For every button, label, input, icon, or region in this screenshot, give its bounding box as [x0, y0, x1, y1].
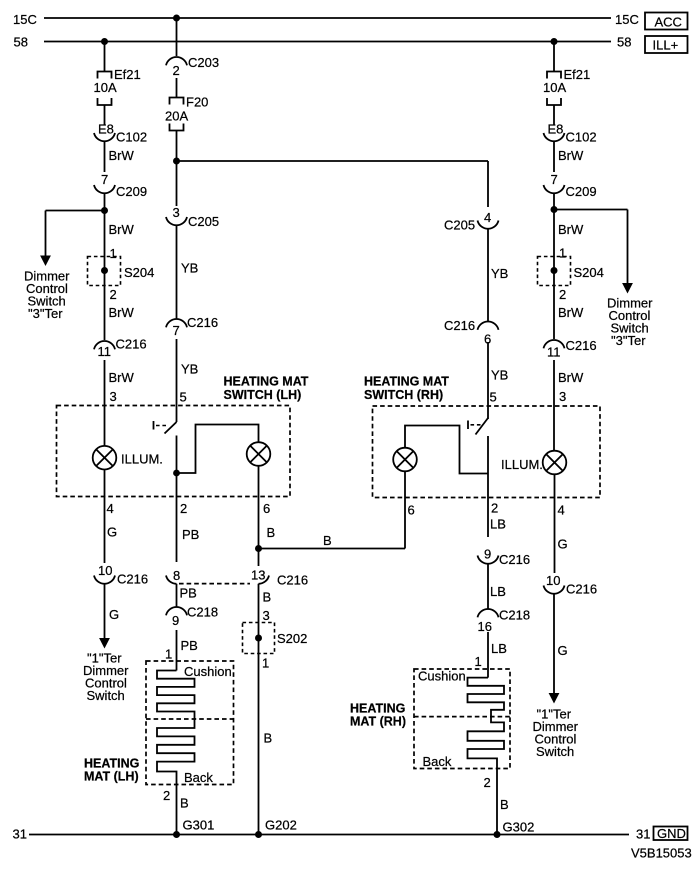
svg-text:7: 7 — [551, 172, 558, 187]
svg-text:20A: 20A — [165, 109, 188, 124]
svg-text:4: 4 — [558, 503, 565, 518]
svg-text:31: 31 — [636, 827, 650, 842]
svg-text:1: 1 — [110, 246, 117, 261]
svg-text:B: B — [267, 525, 276, 540]
svg-text:11: 11 — [547, 345, 561, 360]
svg-text:G202: G202 — [265, 818, 297, 833]
svg-text:C218: C218 — [187, 604, 218, 619]
svg-text:B: B — [500, 797, 509, 812]
svg-text:9: 9 — [172, 613, 179, 628]
svg-text:V5B15053: V5B15053 — [631, 846, 692, 861]
svg-text:Ef21: Ef21 — [114, 67, 141, 82]
svg-text:9: 9 — [484, 547, 491, 562]
svg-text:C216: C216 — [117, 572, 148, 587]
svg-text:2: 2 — [491, 501, 498, 516]
svg-text:BrW: BrW — [558, 370, 584, 385]
svg-text:10: 10 — [98, 563, 112, 578]
svg-text:G: G — [558, 537, 568, 552]
svg-text:Back: Back — [423, 754, 452, 769]
svg-text:58: 58 — [14, 35, 28, 50]
svg-text:C209: C209 — [566, 184, 597, 199]
svg-text:HEATING: HEATING — [350, 702, 405, 716]
svg-text:B: B — [323, 533, 332, 548]
svg-text:3: 3 — [263, 608, 270, 623]
svg-text:5: 5 — [180, 390, 187, 405]
svg-text:3: 3 — [110, 389, 117, 404]
svg-text:7: 7 — [173, 323, 180, 338]
svg-text:Switch: Switch — [87, 688, 125, 703]
svg-text:5: 5 — [490, 390, 497, 405]
svg-text:C209: C209 — [116, 184, 147, 199]
svg-text:10A: 10A — [94, 80, 117, 95]
svg-text:B: B — [264, 731, 273, 746]
svg-text:G: G — [109, 607, 119, 622]
svg-text:13: 13 — [251, 568, 265, 583]
svg-text:PB: PB — [181, 638, 198, 653]
svg-text:7: 7 — [101, 172, 108, 187]
svg-text:Cushion: Cushion — [418, 669, 466, 684]
svg-text:HEATING: HEATING — [84, 757, 139, 771]
svg-text:15C: 15C — [13, 12, 37, 27]
svg-text:S204: S204 — [124, 265, 154, 280]
svg-text:1: 1 — [165, 647, 172, 662]
svg-text:Switch: Switch — [536, 744, 574, 759]
svg-text:G302: G302 — [503, 820, 535, 835]
svg-text:PB: PB — [182, 527, 199, 542]
svg-text:"3"Ter: "3"Ter — [611, 333, 646, 348]
svg-text:6: 6 — [408, 503, 415, 518]
svg-text:C216: C216 — [277, 573, 308, 588]
svg-text:E8: E8 — [548, 122, 564, 137]
svg-text:BrW: BrW — [558, 222, 584, 237]
svg-text:16: 16 — [478, 619, 492, 634]
svg-text:6: 6 — [263, 501, 270, 516]
svg-text:Back: Back — [184, 770, 213, 785]
svg-text:58: 58 — [617, 35, 631, 50]
svg-text:YB: YB — [181, 261, 198, 276]
svg-text:YB: YB — [491, 266, 508, 281]
svg-text:F20: F20 — [186, 95, 208, 110]
svg-text:C216: C216 — [444, 318, 475, 333]
svg-text:YB: YB — [491, 368, 508, 383]
svg-text:S204: S204 — [574, 265, 604, 280]
svg-text:B: B — [180, 796, 189, 811]
svg-text:3: 3 — [173, 205, 180, 220]
svg-text:C203: C203 — [188, 55, 219, 70]
svg-text:BrW: BrW — [558, 305, 584, 320]
svg-text:C102: C102 — [116, 130, 147, 145]
svg-text:BrW: BrW — [109, 222, 135, 237]
svg-text:PB: PB — [180, 586, 197, 601]
svg-text:GND: GND — [657, 826, 686, 841]
svg-text:LB: LB — [491, 641, 507, 656]
svg-text:LB: LB — [490, 517, 506, 532]
svg-text:SWITCH (RH): SWITCH (RH) — [364, 388, 443, 402]
svg-text:SWITCH (LH): SWITCH (LH) — [224, 388, 302, 402]
svg-text:8: 8 — [173, 568, 180, 583]
svg-text:"3"Ter: "3"Ter — [28, 306, 63, 321]
svg-text:MAT (LH): MAT (LH) — [84, 770, 139, 784]
svg-text:BrW: BrW — [109, 148, 135, 163]
svg-text:MAT (RH): MAT (RH) — [350, 715, 406, 729]
svg-text:C205: C205 — [188, 214, 219, 229]
svg-text:G: G — [107, 525, 117, 540]
svg-text:2: 2 — [163, 788, 170, 803]
svg-text:2: 2 — [180, 501, 187, 516]
svg-text:E8: E8 — [98, 122, 114, 137]
svg-text:S202: S202 — [277, 631, 307, 646]
svg-text:4: 4 — [484, 210, 491, 225]
svg-text:2: 2 — [559, 287, 566, 302]
svg-text:C102: C102 — [566, 130, 597, 145]
svg-text:2: 2 — [110, 287, 117, 302]
svg-text:C216: C216 — [499, 552, 530, 567]
svg-text:YB: YB — [181, 362, 198, 377]
svg-text:10: 10 — [546, 573, 560, 588]
svg-text:C218: C218 — [499, 608, 530, 623]
svg-text:LB: LB — [490, 584, 506, 599]
svg-text:31: 31 — [13, 827, 27, 842]
svg-text:11: 11 — [98, 344, 112, 359]
svg-text:1: 1 — [475, 654, 482, 669]
svg-text:Cushion: Cushion — [184, 664, 232, 679]
svg-text:4: 4 — [107, 501, 114, 516]
svg-text:2: 2 — [484, 775, 491, 790]
svg-text:BrW: BrW — [109, 370, 135, 385]
svg-text:10A: 10A — [543, 80, 566, 95]
svg-text:HEATING MAT: HEATING MAT — [364, 375, 449, 389]
svg-text:ACC: ACC — [655, 14, 682, 29]
svg-text:BrW: BrW — [109, 305, 135, 320]
svg-text:BrW: BrW — [558, 148, 584, 163]
svg-text:1: 1 — [559, 246, 566, 261]
svg-text:C216: C216 — [566, 338, 597, 353]
svg-text:G301: G301 — [183, 818, 215, 833]
svg-text:3: 3 — [559, 389, 566, 404]
svg-text:1: 1 — [262, 656, 269, 671]
svg-text:C216: C216 — [566, 582, 597, 597]
svg-text:ILLUM.: ILLUM. — [121, 452, 163, 467]
svg-text:ILLUM.: ILLUM. — [501, 457, 543, 472]
svg-text:C216: C216 — [187, 315, 218, 330]
svg-text:HEATING MAT: HEATING MAT — [224, 375, 309, 389]
svg-text:G: G — [558, 643, 568, 658]
svg-text:15C: 15C — [615, 12, 639, 27]
svg-text:2: 2 — [173, 63, 180, 78]
svg-text:B: B — [263, 590, 272, 605]
svg-text:C216: C216 — [116, 337, 147, 352]
svg-text:C205: C205 — [444, 218, 475, 233]
svg-text:Ef21: Ef21 — [564, 67, 591, 82]
svg-text:ILL+: ILL+ — [653, 38, 679, 53]
